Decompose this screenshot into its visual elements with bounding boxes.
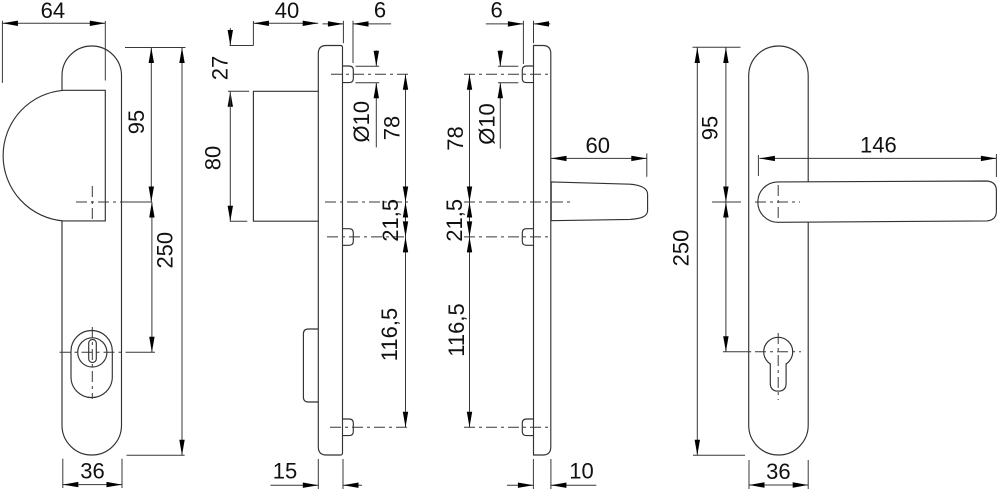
svg-text:36: 36: [80, 458, 104, 483]
knob (front silhouette): [3, 90, 105, 221]
exterior plate (side): [318, 46, 342, 456]
svg-text:Ø10: Ø10: [349, 101, 374, 143]
euro profile hole view4: [764, 337, 793, 391]
spindle axis crosshair view1: [76, 186, 152, 219]
dimension 36 (view1): [63, 458, 122, 488]
lever handle (front): [758, 181, 997, 222]
fixing pin top (side view3): [522, 66, 533, 83]
dimension chain 78 / 21,5 / 116,5 (view2): [377, 74, 408, 427]
lever handle (side): [551, 182, 647, 221]
svg-text:36: 36: [766, 459, 790, 484]
dimension handle-to-cylinder (view1): [149, 202, 154, 352]
svg-text:Ø10: Ø10: [475, 103, 500, 145]
dimension 250 (view1): [127, 48, 185, 456]
svg-text:116,5: 116,5: [377, 308, 402, 361]
svg-text:78: 78: [443, 126, 468, 150]
dimension 95 (view4): [693, 47, 741, 202]
svg-text:146: 146: [860, 133, 897, 158]
svg-text:250: 250: [152, 232, 177, 269]
svg-text:21,5: 21,5: [378, 199, 403, 242]
dimension 80: [201, 91, 234, 221]
dimension handle-to-cylinder (view4): [723, 202, 728, 352]
svg-text:95: 95: [698, 116, 723, 140]
cylinder axis crosshair view4: [723, 333, 801, 400]
dimension 6 (view3): [486, 0, 551, 64]
dimension chain 78 / 21,5 / 116,5 (view3): [442, 74, 472, 427]
dimension 250 (view4): [669, 48, 746, 456]
svg-text:80: 80: [201, 146, 226, 170]
euro cylinder circle: [78, 338, 107, 367]
svg-text:6: 6: [374, 0, 386, 22]
dimension 6 (view2): [323, 0, 392, 63]
dimension 95 (view1): [124, 48, 186, 203]
svg-text:78: 78: [380, 116, 405, 140]
dimension 10: [507, 458, 596, 489]
dimension 64: [2, 0, 105, 83]
svg-text:21,5: 21,5: [442, 199, 467, 242]
dimension 15: [270, 458, 362, 489]
dimension 27: [207, 28, 233, 107]
svg-text:64: 64: [41, 0, 65, 23]
fixing pin middle (side view2): [343, 229, 354, 246]
interior plate (front): [749, 46, 809, 455]
dimension Ø10 (view2): [349, 50, 379, 147]
fixing pin middle (side view3): [522, 229, 533, 246]
svg-text:6: 6: [490, 0, 502, 22]
cylinder escutcheon oval: [71, 331, 112, 398]
dimension 60: [551, 133, 647, 177]
pin axes view2: [331, 73, 408, 75]
svg-text:27: 27: [207, 56, 232, 80]
svg-text:10: 10: [569, 458, 593, 483]
svg-text:40: 40: [275, 0, 299, 23]
dimension 146: [758, 133, 996, 178]
dimension 40: [253, 0, 318, 46]
svg-text:15: 15: [273, 458, 297, 483]
fixing pin bottom (side view2): [343, 419, 354, 436]
fixing pin top (side view2): [343, 66, 354, 83]
cylinder housing (side): [303, 329, 318, 402]
svg-text:60: 60: [585, 133, 609, 158]
svg-text:250: 250: [669, 230, 694, 267]
handle axis crosshair view4: [712, 185, 800, 220]
exterior plate (front): [62, 46, 122, 455]
svg-text:116,5: 116,5: [444, 303, 469, 356]
svg-text:95: 95: [124, 110, 149, 134]
cylinder axis lines view1: [60, 327, 156, 399]
knob block (side): [253, 91, 318, 221]
dimension 36 (view4): [749, 459, 808, 489]
fixing pin bottom (side view3): [522, 419, 533, 436]
pin axes view3: [464, 73, 549, 75]
dimension Ø10 (view3): [475, 50, 519, 148]
interior plate (side): [534, 46, 551, 456]
extension lines 27/80: [230, 45, 254, 47]
keyway slot view1: [89, 340, 97, 363]
